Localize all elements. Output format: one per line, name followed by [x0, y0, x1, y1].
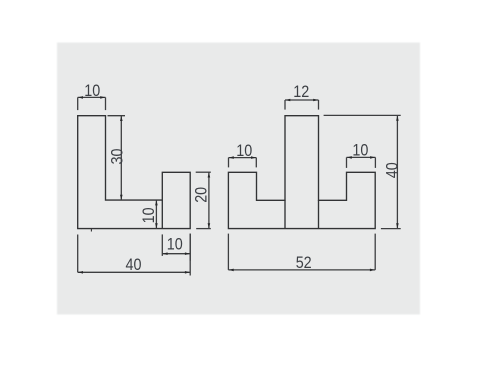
svg-text:40: 40 — [126, 255, 142, 274]
dimension 40 right overall height — [324, 115, 402, 228]
svg-text:52: 52 — [296, 253, 312, 272]
dimension 52 right overall width — [228, 234, 375, 273]
svg-text:10: 10 — [167, 235, 183, 254]
dimension 10 right arm width — [347, 141, 376, 168]
svg-text:10: 10 — [352, 141, 368, 160]
dimension 10 top of left column — [78, 81, 106, 110]
dimension 30 left column height — [108, 116, 127, 200]
right profile tower left edge — [284, 200, 286, 228]
svg-text:30: 30 — [108, 149, 127, 165]
dimension 10 block width — [162, 234, 190, 261]
small tick below left profile bottom — [90, 229, 92, 232]
dimension 10 left bar thickness — [139, 200, 158, 229]
dimension 20 block height — [192, 172, 211, 228]
right profile tower right edge — [318, 200, 320, 228]
right profile outline (double-notch shape) — [228, 116, 375, 229]
svg-text:40: 40 — [382, 162, 401, 178]
dimension 40 left overall width — [78, 234, 191, 276]
svg-text:20: 20 — [192, 187, 211, 203]
svg-text:10: 10 — [139, 207, 158, 223]
dimension 12 tower width — [285, 82, 319, 110]
dimension 10 left arm width — [229, 141, 257, 168]
left profile outline (L-shape) — [78, 116, 191, 229]
svg-text:12: 12 — [293, 82, 309, 101]
svg-text:10: 10 — [236, 141, 252, 160]
svg-text:10: 10 — [84, 81, 100, 100]
left profile inner block edge — [161, 200, 163, 229]
drawing panel background — [57, 43, 420, 315]
